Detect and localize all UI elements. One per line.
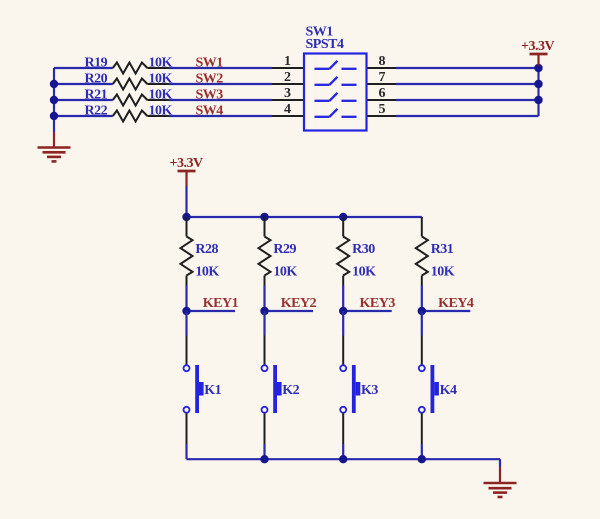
svg-text:R31: R31: [431, 242, 454, 257]
resistor R21: [85, 88, 173, 106]
node KEY2 net label: [265, 296, 317, 311]
switch SW1 pole at y=68: [315, 61, 357, 69]
junction top bus x=343: [339, 213, 347, 221]
svg-text:8: 8: [379, 54, 386, 69]
resistor R19: [85, 56, 173, 74]
switch SW1 pole at y=100: [315, 93, 357, 101]
svg-text:KEY2: KEY2: [281, 296, 317, 311]
SW1 pin 2: [272, 70, 304, 85]
svg-text:K2: K2: [282, 383, 299, 398]
resistor R28: [181, 217, 220, 286]
svg-text:K3: K3: [361, 383, 378, 398]
wire row pin 8 to +3.3V bus: [396, 67, 539, 69]
wire bus corner down: [499, 459, 501, 467]
resistor R30: [337, 217, 376, 286]
wire right vertical bus: [537, 68, 539, 116]
wire stub to button K2: [263, 311, 265, 336]
svg-text:10K: 10K: [352, 265, 376, 280]
wire row SW4 middle segment: [169, 115, 272, 117]
svg-text:SW3: SW3: [196, 88, 224, 103]
SW1 pin 7: [367, 70, 397, 85]
svg-text:R21: R21: [85, 88, 108, 103]
junction at right bus y=84: [534, 80, 542, 88]
svg-text:SW2: SW2: [196, 72, 224, 87]
junction at left bus y=116: [50, 112, 58, 120]
svg-text:R20: R20: [85, 72, 108, 87]
node KEY1 net label: [187, 296, 239, 311]
junction at left bus y=100: [50, 96, 58, 104]
junction bottom bus x=264: [260, 455, 268, 463]
resistor R22: [85, 104, 173, 122]
svg-text:R28: R28: [195, 242, 218, 257]
resistor R31: [416, 217, 455, 286]
junction KEY2 stub: [260, 307, 268, 315]
svg-text:K1: K1: [204, 383, 221, 398]
junction at left bus y=84: [50, 80, 58, 88]
wire R30 to net stub: [342, 286, 344, 312]
power +3.3V key section: [170, 156, 203, 186]
svg-text:5: 5: [379, 102, 386, 117]
switch SW1 pole at y=84: [315, 77, 357, 85]
wire row pin 7 to +3.3V bus: [396, 83, 539, 85]
wire button K4 to bottom bus: [421, 444, 423, 459]
wire row pin 6 to +3.3V bus: [396, 99, 539, 101]
ground GND bottom right: [484, 467, 517, 497]
wire +3.3V to top bus: [185, 186, 187, 217]
wire left vertical bus: [53, 68, 55, 132]
svg-text:10K: 10K: [273, 265, 297, 280]
svg-text:R19: R19: [85, 56, 108, 71]
svg-text:4: 4: [284, 102, 291, 117]
svg-text:SW1: SW1: [196, 56, 224, 71]
svg-text:2: 2: [284, 70, 291, 85]
svg-text:K4: K4: [440, 383, 457, 398]
wire button K1 to bottom bus: [185, 444, 187, 459]
svg-text:6: 6: [379, 86, 386, 101]
junction bottom bus x=343: [339, 455, 347, 463]
junction bottom bus x=422: [418, 455, 426, 463]
SW1 pin 8: [367, 54, 397, 69]
resistor R20: [85, 72, 173, 90]
junction KEY4 stub: [418, 307, 426, 315]
junction top bus x=186: [182, 213, 190, 221]
ground GND left: [38, 132, 71, 161]
svg-text:SPST4: SPST4: [306, 37, 344, 52]
junction KEY3 stub: [339, 307, 347, 315]
svg-text:10K: 10K: [195, 265, 219, 280]
wire row SW2 middle segment: [169, 83, 272, 85]
svg-text:KEY4: KEY4: [438, 296, 474, 311]
wire button K3 to bottom bus: [342, 444, 344, 459]
junction top bus x=264: [260, 213, 268, 221]
power +3.3V top right: [521, 39, 554, 66]
switch SW1 body: [304, 25, 367, 131]
svg-text:3: 3: [284, 86, 291, 101]
svg-text:+3.3V: +3.3V: [521, 39, 554, 54]
node KEY4 net label: [422, 296, 474, 311]
SW1 pin 5: [367, 102, 397, 117]
wire button K2 to bottom bus: [263, 444, 265, 459]
svg-text:10K: 10K: [149, 88, 173, 103]
svg-text:+3.3V: +3.3V: [170, 156, 203, 171]
SW1 pin 3: [272, 86, 304, 101]
wire top bus: [187, 216, 422, 218]
wire row SW3 middle segment: [169, 99, 272, 101]
svg-text:R22: R22: [85, 104, 108, 119]
wire R28 to net stub: [185, 286, 187, 312]
SW1 pin 6: [367, 86, 397, 101]
svg-text:10K: 10K: [431, 265, 455, 280]
wire row SW3 left segment: [54, 99, 113, 101]
wire stub to button K3: [342, 311, 344, 336]
junction at right bus y=68: [534, 64, 542, 72]
button K2: [262, 336, 300, 445]
wire row SW1 middle segment: [169, 67, 272, 69]
svg-text:10K: 10K: [149, 56, 173, 71]
wire bottom bus: [187, 458, 501, 460]
svg-text:10K: 10K: [149, 72, 173, 87]
button K3: [340, 336, 378, 445]
svg-text:R29: R29: [273, 242, 296, 257]
junction at right bus y=100: [534, 96, 542, 104]
wire stub to button K1: [185, 311, 187, 336]
wire stub to button K4: [421, 311, 423, 336]
svg-text:1: 1: [284, 54, 291, 69]
svg-text:KEY1: KEY1: [203, 296, 239, 311]
junction KEY1 stub: [182, 307, 190, 315]
SW1 pin 1: [272, 54, 304, 69]
wire row pin 5 to +3.3V bus: [396, 115, 539, 117]
wire row SW1 left segment: [54, 67, 113, 69]
SW1 pin 4: [272, 102, 304, 117]
button K1: [184, 336, 222, 445]
svg-text:10K: 10K: [149, 104, 173, 119]
wire R29 to net stub: [263, 286, 265, 312]
wire R31 to net stub: [421, 286, 423, 312]
svg-text:KEY3: KEY3: [360, 296, 396, 311]
svg-text:R30: R30: [352, 242, 375, 257]
switch SW1 pole at y=116: [315, 109, 357, 117]
resistor R29: [259, 217, 298, 286]
node KEY3 net label: [343, 296, 395, 311]
svg-text:SW4: SW4: [196, 104, 224, 119]
svg-text:7: 7: [379, 70, 386, 85]
button K4: [419, 336, 457, 445]
wire row SW4 left segment: [54, 115, 113, 117]
wire row SW2 left segment: [54, 83, 113, 85]
